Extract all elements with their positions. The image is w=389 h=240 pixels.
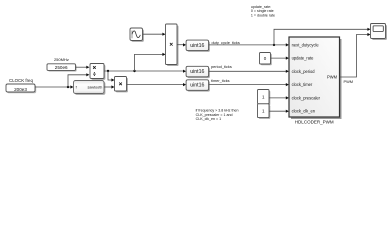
constant 0 (update_rate) [260,53,272,66]
svg-text:250MHz: 250MHz [54,57,69,62]
constant CLOCK freq 200e3 [6,78,36,93]
wire product to uint16 timer [127,83,186,85]
constant 1 (clock_clk_en) [258,104,271,119]
junction B [133,70,135,72]
wire big product to uint16 duty [177,44,185,46]
svg-text:duty_cycle_ticks: duty_cycle_ticks [212,40,240,45]
wire divide output main [104,70,185,72]
wire constant 1 to port 5 [269,97,288,99]
svg-text:CLOCK freq: CLOCK freq [9,78,33,83]
svg-text:clock_timer: clock_timer [292,82,313,87]
svg-text:period_ticks: period_ticks [211,64,232,69]
svg-text:uint16: uint16 [190,83,204,89]
sine wave source [130,28,144,42]
annotation update_rate note [251,5,275,18]
svg-text:HDLCODER_PWM: HDLCODER_PWM [295,119,334,124]
wire sine to big product input 1 [143,33,165,35]
wire duty branch to scope port 1 [274,29,369,45]
constant 250MHz 250e6 [47,57,77,72]
svg-text:uint16: uint16 [190,43,204,49]
wire uint16 timer to port 4 [209,84,288,86]
uint16 period conversion [186,66,210,78]
wire 250e6 to divide input 1 [76,66,89,68]
svg-text:update_rate: update_rate [292,56,315,61]
svg-text:PWM: PWM [327,75,338,80]
uint16 duty cycle conversion [186,40,210,52]
wire sawtooth to product input 2 [104,86,113,88]
junction clock freq branch [67,86,69,88]
uint16 timer conversion [186,80,210,92]
junction duty branch [273,44,275,46]
wire uint16 period to port 3 [209,70,288,72]
annotation CLK_prescaler note [196,109,239,122]
wire uint16 duty to HDLCODER_PWM port 1 [209,44,288,46]
svg-text:uint16: uint16 [190,69,204,75]
svg-text:next_dutycycle: next_dutycycle [292,42,320,47]
constant 1 (clock_prescaler) [258,90,271,106]
subsystem HDLCODER_PWM [289,37,342,124]
product block (timer) [115,77,128,93]
svg-text:timer_ticks: timer_ticks [211,78,230,83]
svg-text:sawtooth: sawtooth [88,86,103,90]
wire constant 0 to port 2 [271,57,288,59]
wire branch to divide input 2 [68,75,88,87]
divide block [90,64,105,80]
svg-text:PWM: PWM [344,79,354,84]
wire constant 1 to port 6 [269,110,288,112]
svg-text:1 = double rate: 1 = double rate [251,13,275,17]
svg-text:clock_prescaler: clock_prescaler [292,95,321,100]
svg-text:clock_period: clock_period [292,69,316,74]
wire 200e3 to sawtooth [35,86,73,88]
wire PWM output to scope port 2 [340,35,370,78]
sawtooth block [74,81,106,95]
svg-text:250e6: 250e6 [55,65,68,70]
wire branch down to product input 1 [108,71,113,80]
big product block (duty) [166,24,179,66]
scope [371,24,388,41]
svg-text:clock_clk_en: clock_clk_en [292,109,316,114]
svg-text:200e3: 200e3 [14,87,27,92]
junction A [107,70,109,72]
svg-text:CLK_clk_en = 1: CLK_clk_en = 1 [196,117,221,121]
wire branch up to big product input 2 [135,54,165,71]
